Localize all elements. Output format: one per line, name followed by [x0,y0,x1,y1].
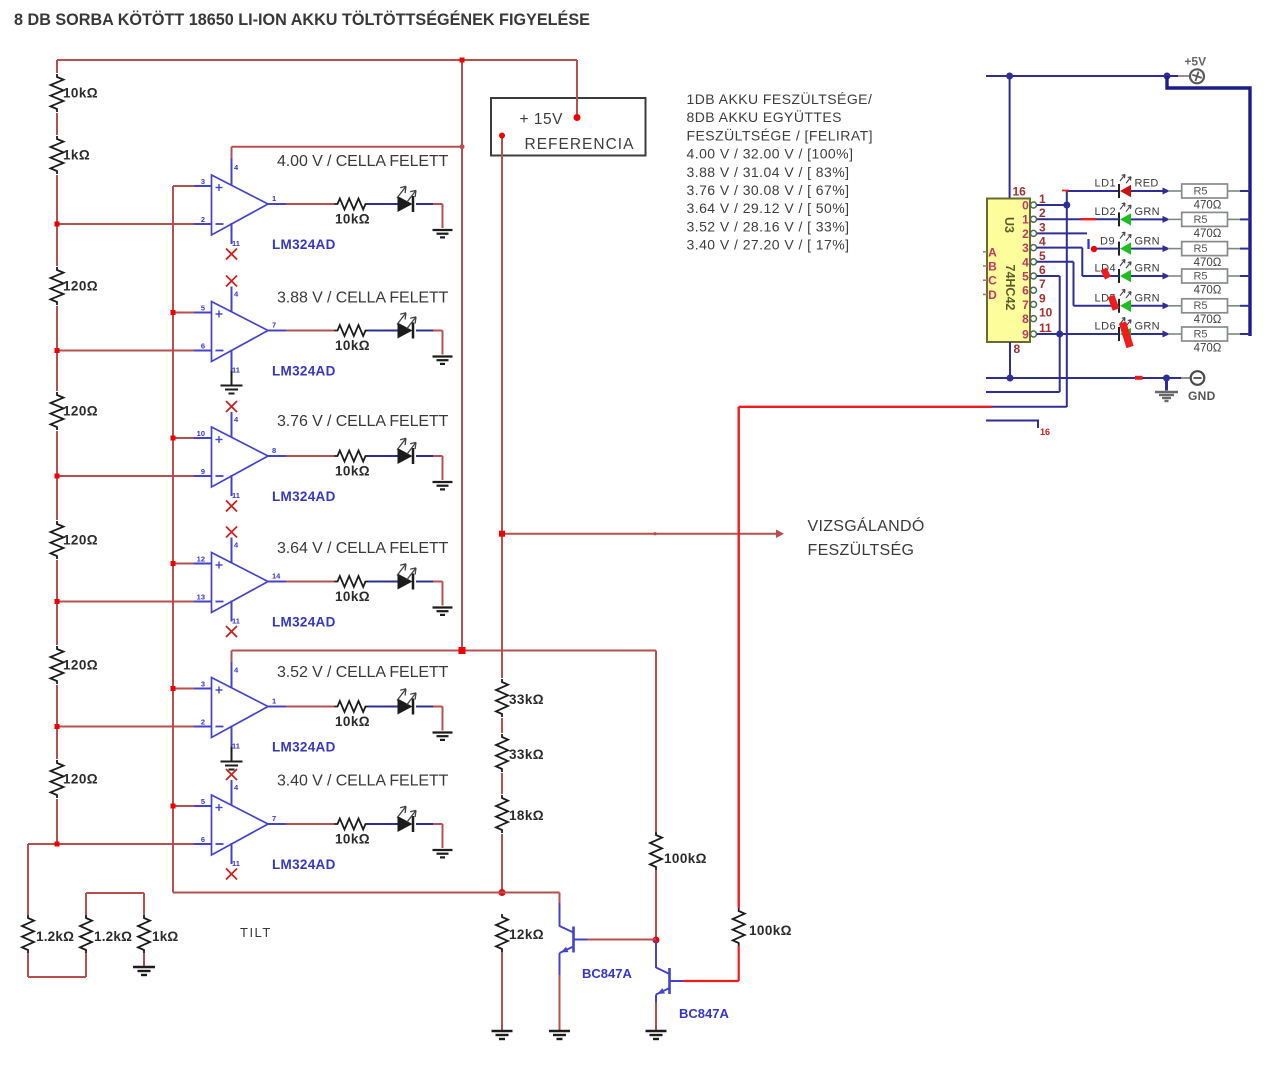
svg-text:11: 11 [1039,321,1052,335]
svg-text:33kΩ: 33kΩ [509,747,544,762]
svg-text:LD2: LD2 [1095,206,1117,218]
svg-text:16: 16 [1040,427,1050,437]
svg-text:120Ω: 120Ω [63,404,98,419]
svg-text:14: 14 [272,572,281,581]
svg-text:D: D [988,288,997,302]
svg-text:1: 1 [272,194,276,203]
svg-text:RED: RED [1135,178,1159,190]
svg-text:8: 8 [1014,342,1021,356]
svg-text:1kΩ: 1kΩ [152,929,178,944]
svg-text:100kΩ: 100kΩ [664,851,707,866]
svg-text:18kΩ: 18kΩ [509,808,544,823]
svg-text:7: 7 [272,814,276,823]
svg-text:3.88 V / 31.04 V / [ 83%]: 3.88 V / 31.04 V / [ 83%] [687,164,850,180]
svg-text:3.40 V / 27.20 V / [ 17%]: 3.40 V / 27.20 V / [ 17%] [687,237,850,253]
svg-text:8: 8 [1022,312,1029,326]
svg-text:9: 9 [1039,291,1046,305]
svg-text:TILT: TILT [240,925,272,940]
svg-text:GRN: GRN [1135,206,1160,218]
svg-text:2: 2 [201,718,205,727]
svg-text:1: 1 [1022,213,1029,227]
svg-text:4.00 V / 32.00 V / [100%]: 4.00 V / 32.00 V / [100%] [687,146,854,162]
svg-text:11: 11 [232,239,240,248]
svg-text:1.2kΩ: 1.2kΩ [36,929,74,944]
svg-text:10: 10 [197,429,205,438]
svg-text:10kΩ: 10kΩ [335,212,370,227]
svg-text:C: C [988,274,997,288]
svg-text:R5: R5 [1193,243,1207,255]
svg-text:74HC42: 74HC42 [1003,265,1017,311]
svg-text:11: 11 [232,366,240,375]
svg-text:11: 11 [232,859,240,868]
svg-text:5: 5 [201,304,205,313]
svg-text:7: 7 [1022,298,1029,312]
svg-text:7: 7 [1039,277,1046,291]
svg-text:8: 8 [272,446,276,455]
svg-text:470Ω: 470Ω [1194,284,1222,296]
svg-text:B: B [988,260,997,274]
svg-text:3: 3 [1022,241,1029,255]
svg-text:10kΩ: 10kΩ [63,86,98,101]
svg-text:3.52 V / 28.16 V / [ 33%]: 3.52 V / 28.16 V / [ 33%] [687,218,850,234]
svg-text:470Ω: 470Ω [1194,314,1222,326]
svg-text:470Ω: 470Ω [1194,228,1222,240]
svg-text:12kΩ: 12kΩ [509,927,544,942]
svg-text:11: 11 [232,742,240,751]
svg-text:120Ω: 120Ω [63,658,98,673]
svg-text:12: 12 [197,555,205,564]
svg-text:3.40 V / CELLA FELETT: 3.40 V / CELLA FELETT [277,773,449,790]
svg-text:1: 1 [1039,192,1046,206]
svg-text:11: 11 [232,491,240,500]
svg-text:4.00 V / CELLA FELETT: 4.00 V / CELLA FELETT [277,153,449,170]
svg-text:R5: R5 [1193,270,1207,282]
svg-text:5: 5 [1039,249,1046,263]
svg-text:2: 2 [1039,206,1046,220]
svg-text:3.64 V / 29.12 V / [ 50%]: 3.64 V / 29.12 V / [ 50%] [687,200,850,216]
svg-text:0: 0 [1022,199,1029,213]
svg-text:6: 6 [1039,263,1046,277]
svg-text:100kΩ: 100kΩ [749,923,792,938]
svg-text:R5: R5 [1193,185,1207,197]
svg-text:120Ω: 120Ω [63,772,98,787]
svg-text:3.76 V / CELLA FELETT: 3.76 V / CELLA FELETT [277,413,449,430]
svg-text:7: 7 [272,321,276,330]
svg-text:BC847A: BC847A [679,1006,729,1021]
svg-text:13: 13 [197,593,205,602]
svg-text:R5: R5 [1193,328,1207,340]
svg-text:8DB AKKU EGYÜTTES: 8DB AKKU EGYÜTTES [687,108,842,125]
svg-text:3.88 V / CELLA FELETT: 3.88 V / CELLA FELETT [277,290,449,307]
svg-text:R5: R5 [1193,300,1207,312]
svg-text:9: 9 [1022,328,1029,342]
svg-text:1: 1 [272,697,276,706]
svg-text:1.2kΩ: 1.2kΩ [94,929,132,944]
svg-text:120Ω: 120Ω [63,279,98,294]
svg-text:VIZSGÁLANDÓ: VIZSGÁLANDÓ [808,516,925,535]
svg-text:BC847A: BC847A [582,966,632,981]
svg-text:GRN: GRN [1135,235,1160,247]
svg-text:1DB AKKU FESZÜLTSÉGE/: 1DB AKKU FESZÜLTSÉGE/ [687,90,873,107]
svg-text:A: A [988,245,997,259]
svg-text:2: 2 [1022,227,1029,241]
svg-text:4: 4 [1039,235,1046,249]
svg-text:8 DB SORBA KÖTÖTT 18650 LI-ION: 8 DB SORBA KÖTÖTT 18650 LI-ION AKKU TÖLT… [14,10,590,29]
svg-text:GRN: GRN [1135,321,1160,333]
svg-text:LM324AD: LM324AD [272,489,336,504]
svg-text:+5V: +5V [1184,55,1206,69]
svg-text:470Ω: 470Ω [1194,199,1222,211]
svg-text:LM324AD: LM324AD [272,740,336,755]
svg-text:R5: R5 [1193,214,1207,226]
svg-text:3.52 V / CELLA FELETT: 3.52 V / CELLA FELETT [277,664,449,681]
svg-text:FESZÜLTSÉG: FESZÜLTSÉG [808,540,915,559]
svg-text:470Ω: 470Ω [1194,342,1222,354]
svg-text:9: 9 [201,467,205,476]
svg-text:3.64 V / CELLA FELETT: 3.64 V / CELLA FELETT [277,540,449,557]
svg-text:D9: D9 [1100,235,1115,247]
svg-text:3: 3 [201,680,205,689]
svg-text:5: 5 [1022,270,1029,284]
svg-text:470Ω: 470Ω [1194,257,1222,269]
svg-text:10kΩ: 10kΩ [335,714,370,729]
svg-text:REFERENCIA: REFERENCIA [525,136,635,153]
svg-text:11: 11 [232,617,240,626]
svg-text:10kΩ: 10kΩ [335,832,370,847]
svg-text:6: 6 [201,835,205,844]
svg-text:LM324AD: LM324AD [272,857,336,872]
svg-text:10kΩ: 10kΩ [335,338,370,353]
svg-text:6: 6 [201,342,205,351]
svg-text:GRN: GRN [1135,263,1160,275]
svg-text:LD6: LD6 [1095,321,1117,333]
svg-text:10kΩ: 10kΩ [335,464,370,479]
svg-text:LM324AD: LM324AD [272,615,336,630]
svg-text:3: 3 [201,177,205,186]
svg-text:5: 5 [201,797,205,806]
svg-text:1kΩ: 1kΩ [63,148,90,163]
svg-text:6: 6 [1022,284,1029,298]
svg-text:GND: GND [1188,389,1216,403]
svg-text:3.76 V / 30.08 V / [ 67%]: 3.76 V / 30.08 V / [ 67%] [687,182,850,198]
svg-text:16: 16 [1013,185,1027,199]
svg-text:LM324AD: LM324AD [272,237,336,252]
svg-text:2: 2 [201,215,205,224]
svg-text:+ 15V: + 15V [520,111,564,128]
svg-text:FESZÜLTSÉGE / [FELIRAT]: FESZÜLTSÉGE / [FELIRAT] [687,126,873,143]
svg-text:4: 4 [1022,255,1029,269]
svg-text:10kΩ: 10kΩ [335,589,370,604]
svg-text:10: 10 [1039,306,1053,320]
svg-text:33kΩ: 33kΩ [509,692,544,707]
svg-text:120Ω: 120Ω [63,533,98,548]
svg-text:LM324AD: LM324AD [272,364,336,379]
svg-text:GRN: GRN [1135,293,1160,305]
svg-text:3: 3 [1039,220,1046,234]
svg-text:LD1: LD1 [1095,178,1117,190]
svg-text:U3: U3 [1002,217,1016,233]
